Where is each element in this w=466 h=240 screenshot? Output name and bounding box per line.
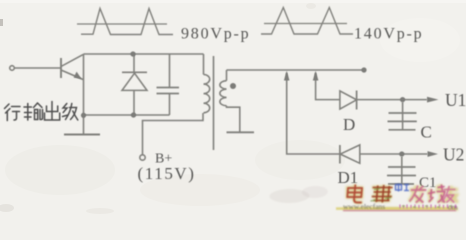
svg-text:om: om: [448, 203, 458, 212]
svg-text:C: C: [421, 123, 432, 142]
svg-text:980Vp-p: 980Vp-p: [181, 26, 250, 43]
svg-text:D: D: [343, 115, 355, 134]
svg-text:www.elecfans: www.elecfans: [343, 202, 385, 211]
svg-text:D1: D1: [338, 168, 359, 187]
svg-text:U2: U2: [443, 145, 464, 165]
svg-text:U1: U1: [445, 90, 466, 110]
svg-text:(115V): (115V): [138, 164, 196, 183]
svg-text:140Vp-p: 140Vp-p: [354, 26, 423, 43]
